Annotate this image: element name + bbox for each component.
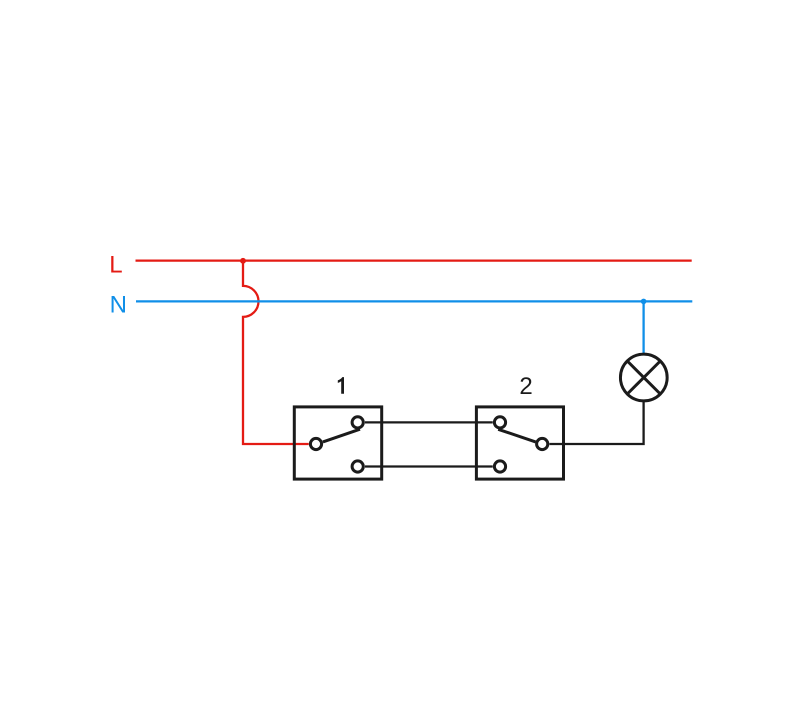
switch S2 common terminal — [537, 438, 548, 449]
label 1 (switch 1) — [338, 377, 344, 394]
switch S2 box — [476, 407, 563, 479]
switch S1 common terminal — [310, 438, 321, 449]
switch S1 box — [294, 407, 381, 479]
lamp E1 diagonal 2 — [628, 362, 660, 394]
switch S2 lower terminal — [494, 461, 505, 472]
switch S1 lever — [323, 429, 360, 442]
wire blue drop from N to lamp — [642, 301, 644, 353]
wire lamp to switch S2 common — [549, 402, 643, 444]
wire N line — [136, 300, 692, 302]
junction on L line — [240, 258, 246, 264]
wire traveler upper (S1 to S2) — [365, 421, 493, 423]
switch S1 upper terminal — [352, 417, 363, 428]
switch S1 lower terminal — [352, 461, 363, 472]
svg-text:L: L — [109, 251, 122, 278]
lamp E1 diagonal 1 — [628, 362, 660, 394]
svg-text:2: 2 — [519, 373, 532, 400]
wire L line — [136, 259, 692, 261]
switch S2 lever — [498, 429, 535, 442]
switch S2 upper terminal — [494, 417, 505, 428]
wire traveler lower (S1 to S2) — [365, 465, 493, 467]
lamp E1 circle — [620, 354, 667, 401]
wire red drop from L with hop over N, to switch 1 — [243, 261, 309, 444]
svg-text:N: N — [110, 292, 127, 319]
junction on N line — [641, 299, 647, 305]
